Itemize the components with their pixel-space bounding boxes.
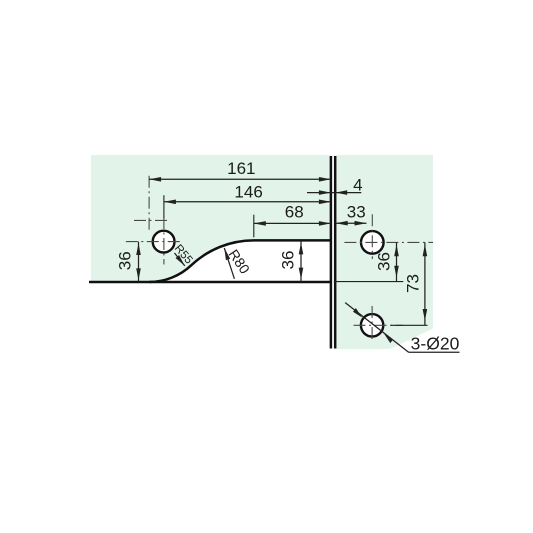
green panel [91, 155, 433, 349]
lower right hole horizontal centerline [354, 324, 404, 326]
plate gap white band [330, 156, 337, 350]
left hole horizontal centerline [126, 241, 182, 243]
svg-text:33: 33 [347, 202, 366, 221]
dim 36 right line [396, 242, 398, 281]
wire: plate left edge [330, 156, 333, 349]
svg-text:36: 36 [116, 251, 135, 270]
svg-text:4: 4 [353, 176, 362, 195]
white halo behind 3-O20 label (diagonal corner cut) [388, 329, 434, 351]
left hole vertical centerline [163, 217, 165, 265]
svg-text:3-Ø20: 3-Ø20 [411, 333, 460, 353]
dim 146 line [164, 201, 331, 203]
svg-text:36: 36 [279, 251, 298, 270]
3-O20 leader diagonal [345, 303, 408, 353]
dim 4 line [307, 192, 361, 194]
lower right hole [361, 314, 383, 336]
lower right hole vertical centerline [371, 306, 373, 342]
R80 leader [224, 248, 234, 279]
wire: plate right edge [334, 156, 337, 349]
upper right hole horizontal centerline [344, 241, 433, 243]
upper right hole [361, 231, 384, 254]
dim 36 middle line [300, 240, 302, 282]
node P1 horizontal centerline [134, 219, 168, 221]
svg-text:146: 146 [234, 183, 262, 202]
dim 36 left line [138, 242, 140, 282]
dim 68 line [254, 222, 331, 224]
upper right hole vertical centerline [371, 214, 373, 259]
node P1 vertical centerline [148, 176, 150, 233]
extension line for 146 [163, 195, 165, 218]
3-O20 leader underline [409, 351, 460, 353]
wire: part top profile curve R55-R80 [149, 240, 331, 282]
part silhouette (white fill) [91, 240, 331, 349]
dim 161 line [149, 178, 331, 180]
svg-text:36: 36 [375, 252, 394, 271]
wire: part bottom surface line [89, 281, 331, 284]
3-O20 arrowhead lower [384, 334, 393, 344]
extension line lower hole level [391, 324, 428, 326]
extension line for 68 [253, 215, 255, 238]
svg-text:73: 73 [404, 274, 423, 293]
3-O20 arrowhead upper [353, 308, 362, 318]
svg-text:161: 161 [227, 159, 255, 178]
left hole [153, 231, 175, 253]
svg-text:68: 68 [285, 202, 304, 221]
extension line bottom level right of plate [334, 281, 404, 283]
dim 33 line [336, 222, 367, 224]
dim 73 line [424, 242, 426, 325]
R55 leader [175, 253, 185, 266]
